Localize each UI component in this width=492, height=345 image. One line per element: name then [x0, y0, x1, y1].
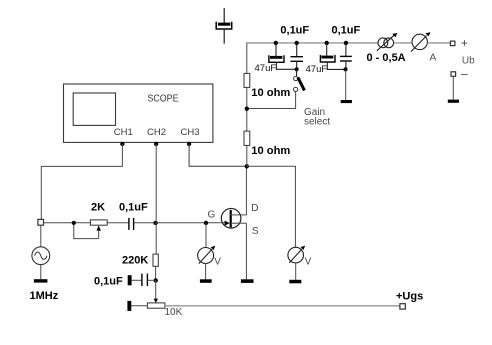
ground (Ub-) [448, 100, 459, 103]
svg-text:10 ohm: 10 ohm [251, 145, 290, 157]
wire drain node to voltmeter M2 [247, 166, 296, 247]
capacitor C4a 47uF electrolytic [320, 43, 345, 70]
svg-text:220K: 220K [122, 255, 148, 267]
svg-text:0,1uF: 0,1uF [94, 276, 123, 288]
terminal Ub - [451, 72, 456, 77]
voltmeter M2 (drain) [288, 246, 305, 280]
node gate/voltmeter junction [204, 221, 208, 225]
wire gate node to 10K wiper [155, 280, 157, 299]
svg-text:+Ugs: +Ugs [396, 290, 423, 302]
terminal input (open square) [38, 219, 44, 225]
node wiper feedback junction [72, 221, 76, 225]
wire source to ground [245, 223, 247, 279]
wire terminal to signal generator [40, 225, 42, 247]
svg-text:CH2: CH2 [147, 127, 166, 138]
capacitor C5 (top, unconnected electrolytic) [216, 8, 232, 44]
ammeter M3 [411, 32, 431, 51]
wire drain up to node [245, 166, 247, 215]
wire C1 to gate [134, 222, 226, 224]
node C1/R2 junction [153, 221, 157, 225]
svg-text:–: – [461, 67, 468, 81]
wire input node to 2K pot [44, 222, 91, 224]
svg-text:CH1: CH1 [114, 127, 133, 138]
wire 2K to C1 [107, 222, 129, 224]
svg-text:SCOPE: SCOPE [148, 93, 179, 104]
potentiometer R1 2K [90, 220, 107, 239]
svg-text:CH3: CH3 [180, 127, 199, 138]
node CH2 output [154, 142, 158, 146]
svg-text:Ub: Ub [462, 55, 475, 66]
capacitor C2 0,1uF (gate, horizontal) [128, 274, 156, 287]
node CH3 output [187, 142, 191, 146]
svg-text:47uF: 47uF [255, 63, 277, 74]
svg-text:2K: 2K [91, 201, 105, 213]
ground (C4) [341, 100, 352, 103]
wire breaker to ammeter [394, 42, 413, 44]
wire C4 node to ground [345, 69, 347, 100]
svg-text:1MHz: 1MHz [30, 290, 59, 302]
terminal +Ugs [400, 304, 405, 309]
svg-text:V: V [214, 256, 221, 267]
wire CH3 to drain node [189, 144, 246, 166]
svg-text:0,1uF: 0,1uF [332, 25, 361, 37]
wire 220K to C2 node [155, 266, 157, 280]
transistor Q1 JFET [221, 209, 246, 229]
voltmeter M1 (gate) [198, 223, 216, 279]
node CH1 output [120, 142, 124, 146]
svg-text:G: G [208, 210, 216, 221]
ground (voltmeter M2) [289, 280, 301, 284]
ground (source) [241, 279, 254, 283]
resistor R5 10 ohm lower [244, 131, 250, 145]
node C3 bottom junction [295, 67, 299, 71]
wire generator to ground [40, 265, 42, 280]
wire CH1 to input terminal [41, 144, 122, 219]
wire 2K wiper feedback loop [74, 225, 99, 239]
ground (voltmeter M1) [200, 279, 212, 283]
wire R5 to drain node [246, 145, 248, 166]
wire Ub- to ground [452, 76, 454, 99]
svg-text:10 ohm: 10 ohm [251, 87, 290, 99]
wire R4 to node [246, 87, 248, 131]
terminal Ub + [450, 41, 455, 46]
svg-text:A: A [429, 51, 436, 63]
oscilloscope U1 SCOPE box [64, 84, 213, 142]
potentiometer R3 10K [127, 299, 164, 311]
breaker F1 0-0.5A [377, 33, 398, 51]
wire ammeter to + terminal [427, 42, 450, 44]
signal generator V1 1MHz [32, 247, 50, 265]
node rail C3b [295, 41, 299, 45]
svg-text:D: D [251, 203, 258, 214]
node gain select junction [245, 107, 249, 111]
wire CH2 down to gate node [155, 144, 157, 254]
svg-text:0 - 0,5A: 0 - 0,5A [367, 52, 406, 64]
resistor R2 220K [153, 254, 158, 266]
node rail C4a [325, 41, 329, 45]
svg-text:0,1uF: 0,1uF [280, 25, 309, 37]
resistor R4 10 ohm upper [244, 73, 250, 87]
switch S1 gain select [249, 69, 304, 108]
svg-text:V: V [305, 257, 312, 268]
capacitor C4b 0,1uF [340, 43, 352, 70]
wire 10K to +Ugs terminal [165, 305, 400, 307]
svg-text:47uF: 47uF [306, 64, 328, 75]
node rail C4b [344, 41, 348, 45]
wire rail down to R4 [246, 42, 248, 73]
wire top rail [246, 42, 378, 44]
svg-text:0,1uF: 0,1uF [119, 201, 148, 213]
capacitor C3b 0,1uF [291, 43, 304, 69]
node C2/10K junction [154, 278, 158, 282]
ground (signal generator) [34, 279, 48, 282]
node rail C3a [274, 41, 278, 45]
capacitor C1 0,1uF series [129, 218, 134, 230]
node C4 bottom junction [343, 67, 347, 71]
capacitor C3a 47uF electrolytic [269, 43, 297, 69]
svg-text:select: select [304, 116, 330, 127]
svg-text:10K: 10K [165, 307, 183, 318]
svg-text:+: + [461, 36, 468, 50]
scope screen [73, 93, 115, 125]
svg-text:S: S [252, 226, 259, 237]
node drain junction [245, 164, 249, 168]
